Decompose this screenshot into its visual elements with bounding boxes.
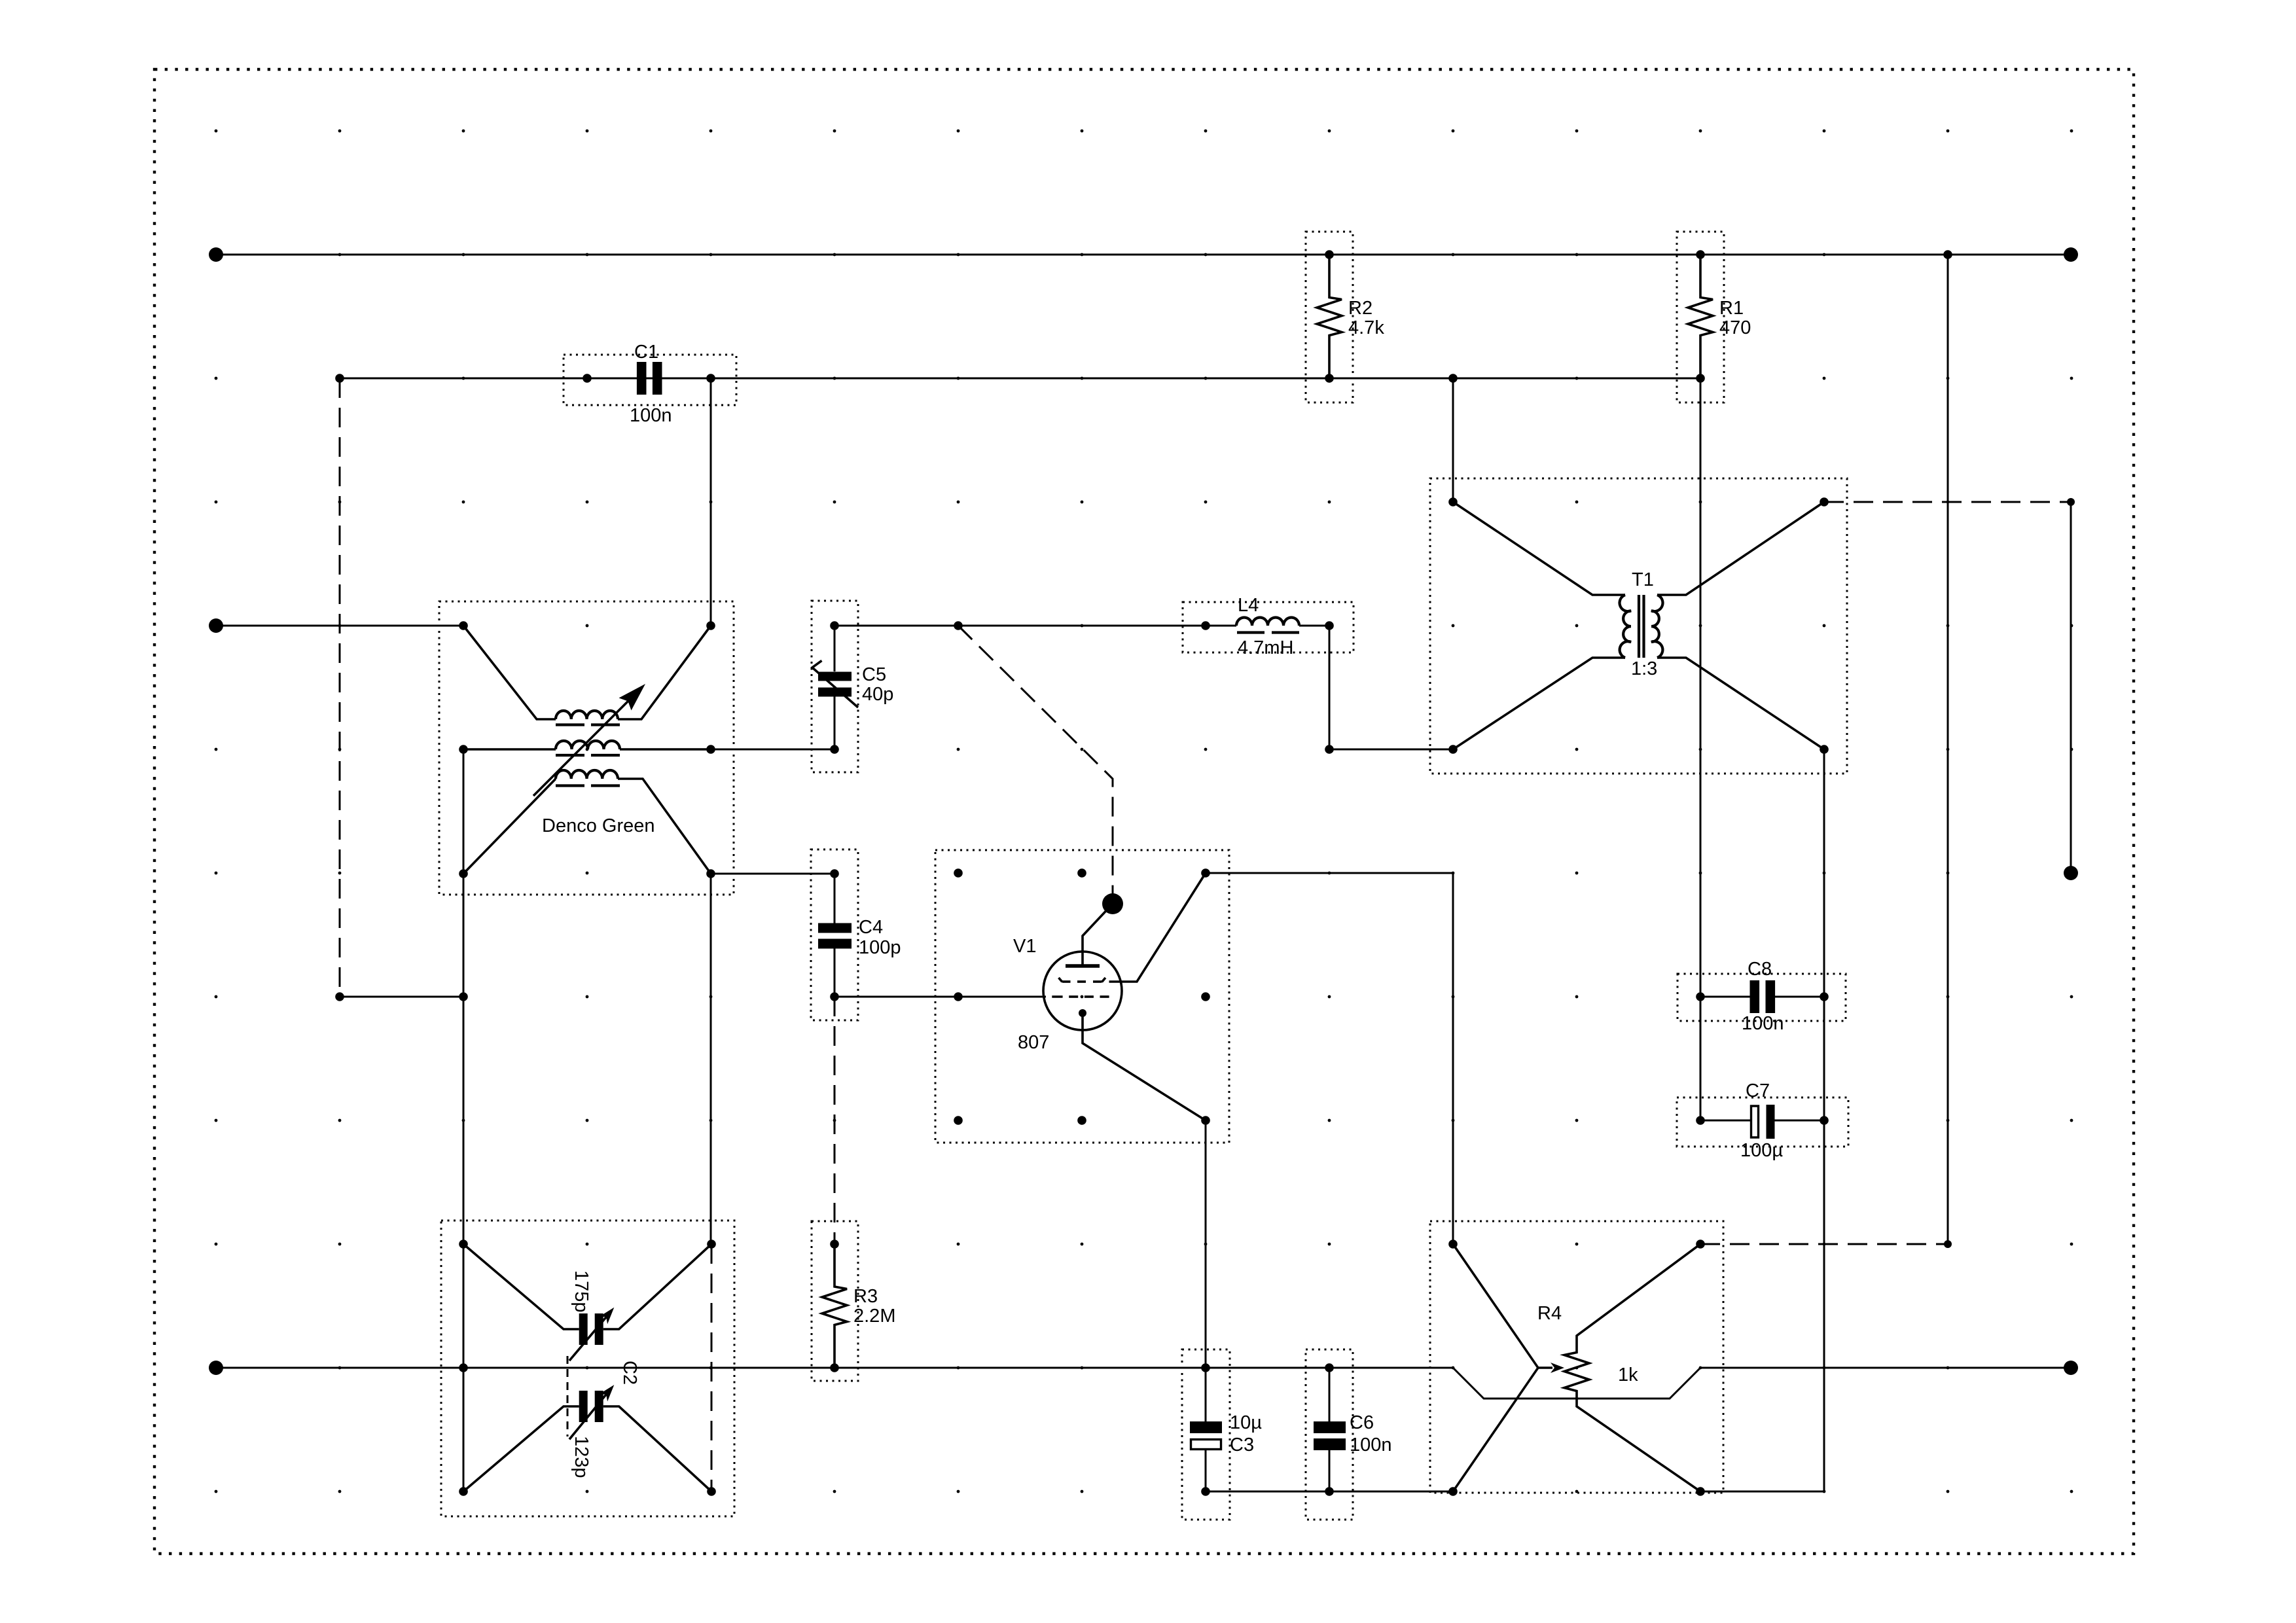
node C8-left [1696,992,1705,1001]
trimmer capacitor C5 [812,601,893,772]
svg-text:175p: 175p [571,1270,592,1313]
node R3-top [830,1240,839,1249]
wire coil left tie [463,749,465,874]
wire link C1-left to feedback (dashed) [339,378,341,997]
node R4-TR [1696,1240,1705,1249]
node coil-BR [706,869,715,878]
node C2-BR [707,1487,716,1496]
svg-text:C7: C7 [1746,1080,1770,1101]
svg-text:4.7k: 4.7k [1348,317,1384,338]
wire R1 bottom drop to C8/C7 [1700,378,1702,1120]
svg-text:C3: C3 [1230,1435,1254,1455]
wire bottom row C3-C6-R4 [1206,1491,1453,1493]
transformer Denco Green (tuned coil) [439,601,734,895]
wire C5 top to node [834,625,958,627]
svg-text:100n: 100n [630,405,672,426]
wire to T1 primary bottom [1329,749,1453,751]
wire link T1 to output stub (dashed) [1824,501,2071,503]
node feedback-T [459,992,468,1001]
svg-text:T1: T1 [1632,569,1654,590]
wire screen wire [1206,872,1453,874]
svg-text:C1: C1 [634,342,658,363]
node R1-bottom [1696,374,1705,383]
wire link C4 to R3 (dashed) [834,997,836,1244]
wire left input bus [216,625,463,627]
node C7-right [1820,1116,1829,1125]
node C7-left [1696,1116,1705,1125]
wire coil mid to C5 bottom [711,749,834,751]
wire link R4 to right drop (dashed) [1700,1243,1948,1245]
svg-text:C4: C4 [859,917,883,938]
terminal P2 [2064,247,2078,262]
wire output stub drop [2070,502,2072,873]
node feedback-end [335,992,344,1001]
node coil-TR [706,621,715,630]
wire feedback stub [340,996,463,998]
node R4-TL [1448,1240,1458,1249]
wire C2 gang right column (dashed) [711,1244,713,1491]
svg-text:C8: C8 [1748,959,1772,980]
node dash-end-right [1944,1240,1952,1248]
inductor L4 [1183,595,1354,658]
wire row-578 left segment [340,378,1329,380]
wire top supply bus [216,254,2071,256]
node coil-BL [459,869,468,878]
svg-text:1:3: 1:3 [1631,658,1657,679]
wire T1 secondary drop [1823,749,1825,1491]
potentiometer R4 1k [1430,1221,1723,1493]
capacitor C4 [811,849,901,1020]
node C1-left [583,374,592,383]
node T1-TR [1820,497,1829,507]
node C3-top [1201,1363,1210,1372]
svg-text:1k: 1k [1618,1364,1638,1385]
svg-text:100n: 100n [1742,1013,1784,1034]
svg-text:2.2M: 2.2M [853,1306,895,1327]
node tank-fork [954,621,963,630]
variable capacitor C2a 175p [441,1221,734,1516]
node R2-top [1325,250,1334,259]
node C5-top [830,621,839,630]
wire coil bottom to C4 [711,873,834,875]
node C1-right [706,374,715,383]
node T-junction-578 [1448,374,1458,383]
wire C4 bottom to grid [834,996,958,998]
wire ground bus detour under R4 [1453,1368,1700,1399]
capacitor C7 100u polarized [1677,1080,1848,1161]
capacitor C6 [1306,1349,1392,1520]
svg-text:100p: 100p [859,937,901,958]
node C4-bottom [830,992,839,1001]
node R2-bottom [1325,374,1334,383]
node C2-TR [707,1240,716,1249]
svg-text:10µ: 10µ [1230,1412,1262,1433]
wire bottom ground bus left [216,1367,1453,1369]
svg-text:100µ: 100µ [1740,1140,1783,1161]
terminal P4 [2064,866,2078,880]
node R3-bottom [830,1363,839,1372]
node C6-top [1325,1363,1334,1372]
node C8-right [1820,992,1829,1001]
transformer T1 1:3 [1430,478,1847,774]
node coil-TL [459,621,468,630]
terminal P6 [2064,1361,2078,1375]
terminal P1 [209,247,223,262]
svg-text:4.7mH: 4.7mH [1238,637,1293,658]
node C2-bus [459,1363,468,1372]
svg-text:R2: R2 [1348,298,1372,319]
wire right column down to C2 [710,874,712,1244]
node C6-bottom [1325,1487,1334,1496]
node C2-TL [459,1240,468,1249]
svg-text:100n: 100n [1350,1435,1392,1455]
wire C1 right drop to coil [710,378,712,626]
node R4-BL [1448,1487,1458,1496]
svg-text:807: 807 [1018,1032,1049,1053]
svg-text:40p: 40p [862,684,893,705]
resistor R3 [812,1221,895,1381]
wire link tank to anode (dashed) [958,626,1113,904]
svg-text:R1: R1 [1719,298,1744,319]
wire row-578 mid segment [1329,378,1453,380]
svg-text:V1: V1 [1013,936,1036,957]
svg-text:123p: 123p [571,1436,592,1478]
wire R4 bottom right link [1700,1491,1824,1493]
node L4-corner [1325,745,1334,754]
node T1-BR [1820,745,1829,754]
capacitor C3 10u polarized [1182,1349,1262,1520]
C2 gang link [567,1356,569,1436]
variable capacitor C2b 123p [463,1361,711,1491]
node C2-BL [459,1487,468,1496]
resistor R1 [1677,232,1751,402]
terminal P3 [209,618,223,633]
wire C2 left column [463,1244,465,1491]
wire screen drop to R4 [1452,873,1454,1244]
wire node to L4 [958,625,1206,627]
svg-text:L4: L4 [1238,595,1259,616]
node coil-MR [706,745,715,754]
node C4-top [830,869,839,878]
node dash-end-stub [2067,498,2075,506]
wire L4 right drop [1329,626,1331,749]
svg-text:R3: R3 [853,1286,878,1307]
node T1-BL [1448,745,1458,754]
node coil-ML [459,745,468,754]
node C3-bottom [1201,1487,1210,1496]
node row578-dash-end [335,374,344,383]
node R1-top [1696,250,1705,259]
svg-text:C5: C5 [862,664,886,685]
capacitor C1 [564,342,736,426]
svg-text:470: 470 [1719,317,1751,338]
wire bottom ground bus right [1700,1367,2071,1369]
wire left column down to C2 [463,874,465,1244]
node T1-TL [1448,497,1458,507]
wire right supply drop [1947,255,1949,1244]
wire row-578 right segment to R1 [1453,378,1700,380]
node right-drop-top [1943,250,1952,259]
node C5-bottom [830,745,839,754]
tube V1 807 [935,850,1229,1143]
node L4-left [1201,621,1210,630]
svg-text:R4: R4 [1537,1303,1562,1324]
node R4-BR [1696,1487,1705,1496]
node L4-right [1325,621,1334,630]
svg-text:Denco Green: Denco Green [542,815,655,836]
wire drop to T1 primary top [1452,378,1454,502]
svg-text:C2: C2 [619,1361,640,1385]
resistor R2 [1306,232,1384,402]
wire cathode drop [1205,1120,1207,1368]
terminal P5 [209,1361,223,1375]
capacitor C8 [1677,959,1846,1034]
svg-text:C6: C6 [1350,1412,1374,1433]
